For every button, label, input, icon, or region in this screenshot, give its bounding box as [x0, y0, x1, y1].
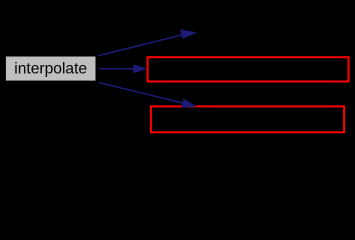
node interpolate [6, 57, 96, 81]
node box2 (red outline) [151, 106, 344, 132]
svg-text:interpolate: interpolate [14, 61, 87, 78]
node box1 (red outline) [148, 57, 349, 81]
wire edge1 to top node [98, 29, 198, 55]
wire edge3 to node box2 [99, 83, 196, 108]
wire edge2 to node box1 [99, 64, 147, 73]
